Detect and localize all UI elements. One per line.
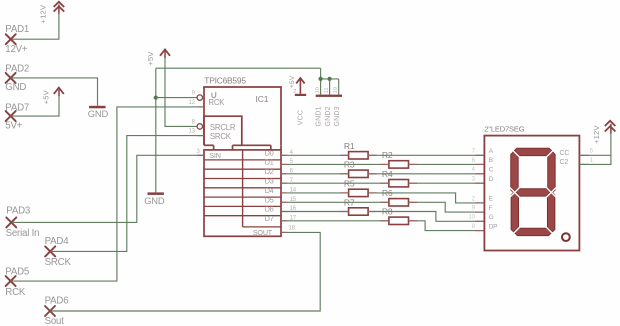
svg-text:Serial In: Serial In bbox=[6, 228, 40, 239]
svg-text:SRCK: SRCK bbox=[45, 257, 72, 268]
svg-text:18: 18 bbox=[289, 225, 296, 231]
wire PAD7 to +5V bbox=[11, 96, 59, 116]
wire GND net horizontal to IC ground pins bbox=[156, 67, 321, 69]
svg-text:GND: GND bbox=[144, 195, 165, 206]
segment D bbox=[514, 228, 552, 235]
svg-text:Sout: Sout bbox=[45, 316, 65, 326]
wire R1 to display pin A bbox=[368, 154, 484, 156]
IC1 row dividers bbox=[204, 160, 281, 227]
svg-text:+12V: +12V bbox=[592, 125, 601, 144]
wire IC pin 7 to R4 bbox=[281, 182, 389, 184]
svg-text:RCK: RCK bbox=[5, 287, 26, 298]
svg-text:PAD7: PAD7 bbox=[5, 102, 29, 113]
segment G bbox=[513, 189, 552, 196]
pad PAD2 bbox=[6, 73, 16, 83]
wire IC pin 17 to R8 bbox=[281, 220, 389, 222]
svg-text:VCC: VCC bbox=[298, 110, 305, 125]
wire R6 to display pin F (jog) bbox=[409, 202, 485, 212]
decimal point DP ring bbox=[562, 233, 570, 241]
power symbol +12V (display) bbox=[605, 121, 616, 134]
pad PAD5 bbox=[6, 276, 16, 286]
power symbol +5V (PAD7) bbox=[54, 88, 64, 97]
wire IC pin 14 to R5 bbox=[281, 192, 349, 194]
svg-text:PAD2: PAD2 bbox=[5, 64, 29, 75]
IC1 SIN/D column divider bbox=[242, 150, 244, 227]
svg-text:GND2: GND2 bbox=[325, 106, 332, 126]
wire SRCK net: PAD4 to IC pin 13 bbox=[50, 136, 204, 252]
display U2 2"LED7SEG box bbox=[484, 136, 579, 251]
segment C bbox=[547, 191, 554, 233]
svg-text:R3: R3 bbox=[344, 160, 355, 170]
pad PAD4 bbox=[45, 246, 55, 256]
IC1 clock glyph bbox=[212, 93, 217, 98]
svg-text:PAD4: PAD4 bbox=[45, 236, 70, 247]
wire IC pin 4 to R1 bbox=[281, 154, 349, 156]
svg-text:G: G bbox=[489, 214, 494, 221]
junction GND at pin 11 bbox=[328, 77, 332, 81]
resistor R5 bbox=[349, 189, 369, 196]
IC1 body box bbox=[204, 150, 281, 236]
segment E bbox=[511, 191, 518, 233]
svg-text:R1: R1 bbox=[344, 141, 355, 151]
wire R7 to display pin G (jog) bbox=[368, 212, 484, 222]
svg-text:D7: D7 bbox=[265, 214, 274, 223]
wire R3 to display pin C bbox=[368, 173, 484, 175]
resistor R8 bbox=[389, 217, 409, 224]
svg-text:12V+: 12V+ bbox=[5, 44, 28, 55]
svg-text:GND3: GND3 bbox=[334, 106, 341, 126]
IC1 gate join edges and tabs bbox=[204, 145, 281, 150]
resistor R7 bbox=[349, 208, 369, 215]
svg-text:F: F bbox=[489, 205, 493, 212]
IC1 VCC power gate bar bbox=[295, 94, 306, 96]
svg-text:DP: DP bbox=[489, 223, 499, 230]
svg-text:19: 19 bbox=[333, 87, 339, 94]
svg-text:SOUT: SOUT bbox=[253, 228, 273, 237]
wire R5 to display pin E (jog) bbox=[368, 193, 484, 203]
svg-text:C: C bbox=[489, 167, 494, 174]
wire PAD2 to ground bbox=[11, 78, 98, 106]
svg-text:IC1: IC1 bbox=[256, 94, 269, 104]
svg-text:GND1: GND1 bbox=[316, 106, 323, 126]
svg-text:PAD6: PAD6 bbox=[45, 296, 69, 307]
wire IC pin 6 to R3 bbox=[281, 173, 349, 175]
svg-text:D4: D4 bbox=[265, 186, 274, 195]
svg-text:R5: R5 bbox=[344, 179, 355, 189]
resistor R6 bbox=[389, 199, 409, 206]
wire +12V rail from PAD1 bbox=[11, 13, 59, 39]
segment A bbox=[513, 148, 553, 155]
svg-text:+5V: +5V bbox=[146, 51, 155, 66]
svg-text:D6: D6 bbox=[265, 205, 274, 214]
svg-text:+5V: +5V bbox=[289, 75, 296, 88]
svg-text:PAD3: PAD3 bbox=[6, 205, 30, 216]
wire SOUT net: IC pin 18 to PAD6 bbox=[50, 232, 320, 311]
svg-text:CC: CC bbox=[560, 150, 570, 157]
wire GND bridging pins 10-11-19 bbox=[321, 78, 339, 80]
wire IC pin 16 to R7 bbox=[281, 211, 349, 213]
svg-text:RCK: RCK bbox=[208, 98, 225, 107]
wire R4 to display pin D bbox=[409, 182, 485, 184]
svg-text:R7: R7 bbox=[344, 197, 355, 207]
svg-text:5V+: 5V+ bbox=[5, 121, 22, 132]
junction GND at pin 10 bbox=[319, 77, 323, 81]
wire GND to pin 11 bbox=[329, 79, 331, 95]
wire RCK net: PAD5 to IC pin 12 bbox=[11, 107, 204, 281]
svg-text:11: 11 bbox=[324, 87, 330, 93]
svg-text:D: D bbox=[489, 176, 494, 183]
svg-text:D1: D1 bbox=[265, 158, 274, 167]
svg-text:13: 13 bbox=[189, 129, 196, 135]
wire IC pin 5 to R2 bbox=[281, 163, 389, 165]
svg-text:2: 2 bbox=[293, 89, 296, 95]
svg-text:D3: D3 bbox=[265, 176, 274, 185]
IC1 GND power gate bar bbox=[316, 95, 342, 97]
svg-text:SRCLR: SRCLR bbox=[210, 123, 236, 132]
svg-text:12: 12 bbox=[189, 100, 196, 106]
wire GND to pin 10 bbox=[320, 68, 322, 94]
wire IC pin 15 to R6 bbox=[281, 201, 389, 203]
svg-text:D0: D0 bbox=[265, 148, 274, 157]
ground symbol (IC1 trunk) bbox=[148, 192, 164, 195]
inverter bubble pin 9 bbox=[197, 95, 202, 100]
segment F bbox=[511, 151, 518, 194]
red pin stubs (resistor leads and display pins) bbox=[197, 107, 589, 232]
segment B bbox=[548, 151, 555, 194]
wire GND net vertical trunk bbox=[155, 68, 157, 192]
svg-text:GND: GND bbox=[5, 82, 26, 93]
resistor R2 bbox=[389, 161, 409, 168]
svg-text:C2: C2 bbox=[560, 159, 569, 166]
junction on GND trunk at pin 9 row bbox=[154, 96, 158, 100]
svg-text:10: 10 bbox=[315, 87, 321, 94]
svg-text:SRCK: SRCK bbox=[210, 132, 232, 141]
resistor R4 bbox=[389, 180, 409, 187]
wire R2 to display pin B bbox=[409, 163, 485, 165]
svg-text:PAD1: PAD1 bbox=[5, 24, 29, 35]
svg-text:TPIC6B595: TPIC6B595 bbox=[204, 76, 246, 86]
op IC1 TPIC6B595 header box (open bottom) bbox=[204, 87, 281, 145]
pad PAD3 bbox=[6, 217, 16, 227]
wire R8 to display pin DP (jog) bbox=[409, 221, 485, 231]
IC1 SRCLR/SRCK sub box (open bottom) bbox=[204, 116, 242, 145]
inverter bubble pin 8 bbox=[197, 124, 202, 129]
power symbol +12V (left) bbox=[54, 2, 65, 14]
svg-text:D5: D5 bbox=[265, 195, 274, 204]
svg-text:SIN: SIN bbox=[209, 151, 220, 160]
resistor R3 bbox=[349, 170, 369, 177]
pad PAD1 bbox=[6, 34, 16, 44]
wire GND to IC pin 9 (enable) bbox=[156, 97, 197, 99]
wire SIN net: PAD3 to IC pin 3 bbox=[11, 155, 204, 222]
resistor R1 bbox=[349, 152, 369, 159]
pad PAD7 bbox=[6, 111, 16, 121]
wire display CC pin 5 to +12V bbox=[579, 154, 611, 156]
svg-text:+12V: +12V bbox=[38, 4, 47, 23]
power symbol +5V (IC logic) bbox=[160, 49, 170, 58]
ground symbol (PAD2 net) bbox=[89, 106, 105, 109]
svg-text:PAD5: PAD5 bbox=[5, 267, 29, 278]
wire GND to pin 19 bbox=[338, 79, 340, 95]
power symbol +5V (VCC pin 2) bbox=[299, 79, 301, 94]
svg-text:2"LED7SEG: 2"LED7SEG bbox=[484, 125, 524, 134]
pad PAD6 bbox=[45, 306, 55, 316]
wire display C2 pin 1 to +12V bbox=[579, 134, 611, 165]
svg-text:10: 10 bbox=[469, 215, 476, 221]
wire +5V to IC pin 8 (SRCLR) bbox=[165, 58, 197, 126]
svg-text:+5V: +5V bbox=[41, 89, 50, 104]
segment corner separations bbox=[509, 147, 520, 158]
svg-text:D2: D2 bbox=[265, 167, 274, 176]
svg-text:GND: GND bbox=[88, 108, 109, 119]
